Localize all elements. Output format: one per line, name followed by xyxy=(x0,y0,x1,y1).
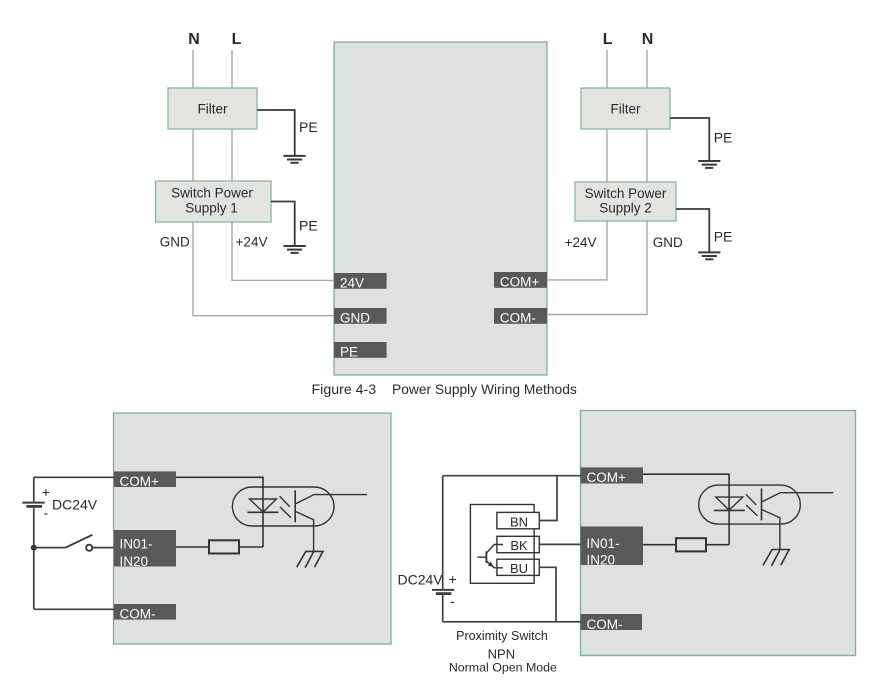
junction dot (left diagram) xyxy=(31,545,37,551)
wire battery left vertical top xyxy=(33,477,35,501)
svg-text:IN20: IN20 xyxy=(120,554,149,569)
switch contact circle xyxy=(86,545,92,551)
wire +24V SPS2 to COM+ terminal xyxy=(547,221,607,280)
wire GND SPS2 to COM- terminal xyxy=(547,221,647,315)
switch blade (left diagram) xyxy=(66,535,93,548)
wire PE from Filter 2 xyxy=(670,118,709,161)
svg-text:NPN: NPN xyxy=(488,646,515,661)
wire BN to COM+ wire xyxy=(539,476,557,521)
svg-text:PE: PE xyxy=(299,119,318,135)
svg-text:L: L xyxy=(603,31,613,48)
resistor R (left module) xyxy=(209,540,239,553)
svg-text:+24V: +24V xyxy=(565,235,597,250)
svg-text:Switch Power: Switch Power xyxy=(585,186,667,201)
svg-text:IN01-: IN01- xyxy=(120,537,153,552)
wire switch to IN01 terminal xyxy=(93,547,114,549)
wire N Filter1 to Switch Power Supply 1 xyxy=(192,129,194,181)
terminal COM- (left module) xyxy=(114,604,176,621)
wire DC24V- to COM- (right) xyxy=(443,621,581,623)
wire L input to Filter 2 xyxy=(606,50,608,88)
NPN transistor (proximity switch) xyxy=(477,545,503,568)
svg-text:24V: 24V xyxy=(340,276,364,291)
earth ground (SPS1) xyxy=(284,246,306,253)
wire GND SPS1 to GND terminal xyxy=(193,222,334,316)
wire junction to switch xyxy=(34,547,66,549)
svg-text:Supply 1: Supply 1 xyxy=(185,200,238,215)
wire BK to IN01 terminal xyxy=(539,543,580,545)
svg-text:L: L xyxy=(232,31,242,48)
wire L input to Filter 1 xyxy=(231,50,233,88)
wire resistor to LED cathode node xyxy=(239,546,263,548)
svg-text:PE: PE xyxy=(714,130,733,146)
terminal GND xyxy=(334,308,387,326)
wire PE from Switch Power Supply 2 xyxy=(676,209,709,252)
svg-text:GND: GND xyxy=(160,235,190,250)
svg-text:+: + xyxy=(449,571,457,587)
wire COM+ terminal to optocoupler LED (right module) xyxy=(643,474,729,545)
battery DC24V (right diagram) xyxy=(432,590,454,594)
wire PE from Filter 1 xyxy=(257,110,295,156)
switch power supply 2 xyxy=(575,182,676,221)
svg-text:Power Supply Wiring Methods: Power Supply Wiring Methods xyxy=(392,382,577,397)
svg-text:DC24V: DC24V xyxy=(398,572,444,588)
terminal COM+ (right module) xyxy=(581,467,644,485)
svg-text:COM+: COM+ xyxy=(120,474,159,489)
terminal COM- (top box) xyxy=(494,308,547,326)
wire battery right vertical top xyxy=(442,476,444,589)
wire resistor to LED cathode node (right) xyxy=(706,544,729,546)
svg-text:BK: BK xyxy=(510,538,528,553)
svg-text:PE: PE xyxy=(714,229,733,245)
svg-text:N: N xyxy=(188,31,200,48)
terminal COM+ (top box) xyxy=(494,272,547,290)
svg-text:PE: PE xyxy=(340,345,358,360)
earth ground (filter 1) xyxy=(284,156,306,163)
svg-text:GND: GND xyxy=(340,311,370,326)
wire IN01 terminal to resistor xyxy=(176,546,209,548)
terminal IN01-IN20 (right module) xyxy=(581,527,644,568)
wire N input to Filter 2 xyxy=(646,50,648,88)
pin box BU xyxy=(497,559,539,576)
wire L Filter1 to Switch Power Supply 1 xyxy=(231,129,233,181)
terminal IN01-IN20 (left module) xyxy=(114,530,176,569)
svg-text:+: + xyxy=(42,484,50,500)
svg-text:DC24V: DC24V xyxy=(52,497,98,513)
pin box BN xyxy=(497,512,539,529)
svg-text:GND: GND xyxy=(653,235,683,250)
wire L Filter2 to Switch Power Supply 2 xyxy=(606,129,608,182)
wire battery left vertical bottom xyxy=(33,508,35,610)
wire BU to COM- wire xyxy=(539,567,556,622)
terminal COM+ (left module) xyxy=(114,471,176,488)
switch power supply 1 xyxy=(156,181,272,222)
filter block 1 xyxy=(168,88,257,129)
svg-text:Normal Open Mode: Normal Open Mode xyxy=(449,660,557,674)
main controller box (top) xyxy=(334,42,547,375)
svg-text:Figure 4-3: Figure 4-3 xyxy=(312,382,377,398)
svg-text:COM+: COM+ xyxy=(587,470,626,485)
wire battery right vertical bottom xyxy=(442,595,444,622)
wire DC24V- to COM- (left) xyxy=(34,608,114,610)
svg-text:Filter: Filter xyxy=(198,102,229,117)
wire N input to Filter 1 xyxy=(192,50,194,88)
svg-text:Filter: Filter xyxy=(611,102,642,117)
optocoupler U1 (left module) xyxy=(232,487,367,551)
battery DC24V (left diagram) xyxy=(22,503,44,507)
resistor R (right module) xyxy=(676,538,706,551)
chassis ground (right module) xyxy=(763,550,790,566)
optocoupler U2 (right module) xyxy=(699,485,834,549)
wire +24V SPS1 to 24V terminal xyxy=(232,222,334,280)
wire DC24V+ to COM+ (left) xyxy=(34,476,114,478)
proximity switch body xyxy=(470,505,534,584)
svg-text:Switch Power: Switch Power xyxy=(171,185,253,200)
svg-text:COM+: COM+ xyxy=(500,275,539,290)
wire N Filter2 to Switch Power Supply 2 xyxy=(646,129,648,182)
terminal COM- (right module) xyxy=(581,614,643,632)
svg-text:-: - xyxy=(450,593,455,609)
svg-text:BU: BU xyxy=(510,561,528,576)
chassis ground (left module) xyxy=(297,551,324,567)
svg-text:COM-: COM- xyxy=(587,617,623,632)
svg-text:IN20: IN20 xyxy=(587,553,616,568)
svg-text:Proximity Switch: Proximity Switch xyxy=(456,629,548,643)
svg-text:N: N xyxy=(642,31,654,48)
svg-text:+24V: +24V xyxy=(236,235,268,250)
earth ground (SPS2) xyxy=(698,252,720,259)
input module box (right) xyxy=(581,411,856,656)
svg-text:-: - xyxy=(43,505,48,521)
svg-text:PE: PE xyxy=(299,218,318,234)
wire PE from Switch Power Supply 1 xyxy=(271,202,295,246)
wire IN01 terminal to resistor (right module) xyxy=(643,544,676,546)
earth ground (filter 2) xyxy=(698,161,720,168)
pin box BK xyxy=(497,536,539,553)
svg-text:BN: BN xyxy=(510,514,528,529)
svg-text:COM-: COM- xyxy=(120,606,156,621)
wire COM+ terminal to optocoupler LED (left module) xyxy=(176,477,263,547)
svg-text:COM-: COM- xyxy=(500,311,536,326)
terminal 24V xyxy=(334,273,387,291)
terminal PE xyxy=(334,342,387,360)
input module box (left) xyxy=(114,413,392,644)
filter block 2 xyxy=(581,88,670,129)
svg-text:IN01-: IN01- xyxy=(587,536,620,551)
emitter arrow (NPN) xyxy=(488,562,494,567)
wire DC24V+ to COM+ (right) xyxy=(443,475,581,477)
svg-text:Supply 2: Supply 2 xyxy=(599,201,652,216)
